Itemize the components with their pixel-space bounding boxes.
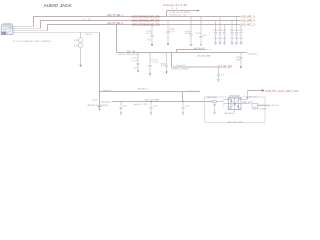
svg-text:C315: C315 xyxy=(185,106,190,108)
svg-text:C319: C319 xyxy=(195,33,201,35)
svg-text:50V: 50V xyxy=(134,67,139,69)
svg-text:33pF: 33pF xyxy=(236,59,242,61)
svg-text:MIC_IN: MIC_IN xyxy=(127,51,135,53)
svg-text:AUD_JACK_GND: AUD_JACK_GND xyxy=(228,121,244,124)
svg-text:MMBT3904: MMBT3904 xyxy=(207,97,217,99)
svg-text:NetQ31_2: NetQ31_2 xyxy=(103,89,113,92)
svg-text:AUD_HS_JACK_DET_3V3: AUD_HS_JACK_DET_3V3 xyxy=(265,90,299,93)
svg-text:AUD 1 2 1K DNI AUD_HPR_CON: AUD 1 2 1K DNI AUD_HPR_CON xyxy=(132,19,160,22)
svg-text:C313: C313 xyxy=(123,106,128,108)
svg-text:Q311: Q311 xyxy=(93,99,99,101)
svg-text:NetU31_4: NetU31_4 xyxy=(249,95,258,98)
svg-text:AUD_MIC_DET: AUD_MIC_DET xyxy=(218,66,233,69)
svg-text:47pF: 47pF xyxy=(132,60,139,62)
svg-text:4.7K: 4.7K xyxy=(161,66,167,68)
svg-text:AUD_MIC_X: AUD_MIC_X xyxy=(241,24,256,27)
svg-text:31-15-2103 HEADSET JACK 3.5MM: 31-15-2103 HEADSET JACK 3.5MM A35 xyxy=(13,40,52,43)
svg-text:HS_DET_L: HS_DET_L xyxy=(138,89,149,91)
svg-text:0.1u 1uF 10u: 0.1u 1uF 10u xyxy=(213,38,226,40)
svg-text:AUD_MIC_BIAS: AUD_MIC_BIAS xyxy=(145,99,160,102)
svg-text:100K: 100K xyxy=(185,33,191,35)
svg-text:AUD_JACK_IC: AUD_JACK_IC xyxy=(225,112,237,115)
svg-text:Charge_Px 3.3V: Charge_Px 3.3V xyxy=(163,3,187,7)
svg-text:C314: C314 xyxy=(153,106,158,108)
svg-text:MIC_IN: MIC_IN xyxy=(86,34,93,36)
svg-text:NetR31_2 1.0A: NetR31_2 1.0A xyxy=(170,14,187,17)
svg-text:NetC31_1 AUD_MIC_IN: NetC31_1 AUD_MIC_IN xyxy=(119,53,140,56)
svg-text:AUD 1 2 1K DNI AUD_HPL_CON: AUD 1 2 1K DNI AUD_HPL_CON xyxy=(132,15,160,18)
svg-text:1uF: 1uF xyxy=(202,35,207,37)
svg-text:3 4: 3 4 xyxy=(223,107,228,109)
svg-text:22 ohm 1%: 22 ohm 1% xyxy=(177,65,186,67)
svg-text:D311: D311 xyxy=(74,40,80,42)
svg-text:3.3: 3.3 xyxy=(172,8,178,10)
svg-text:10K 1%: 10K 1% xyxy=(271,105,279,107)
svg-text:2.2K: 2.2K xyxy=(152,62,159,64)
svg-text:16V: 16V xyxy=(147,40,152,42)
svg-text:0.1u: 0.1u xyxy=(169,31,174,33)
svg-text:AUD_HPR_X: AUD_HPR_X xyxy=(241,20,256,23)
svg-text:AUD_MIC_BIAS: AUD_MIC_BIAS xyxy=(198,54,212,57)
svg-text:SN74LVC1G3157: SN74LVC1G3157 xyxy=(229,96,240,98)
svg-text:AUD_HP_SEL_R: AUD_HP_SEL_R xyxy=(107,22,123,25)
svg-text:AUDIO JACK: AUDIO JACK xyxy=(44,3,73,8)
svg-text:NetR318_2 0402: NetR318_2 0402 xyxy=(252,107,266,110)
svg-text:10uF: 10uF xyxy=(146,33,152,35)
svg-text:AUD_HS_DET: AUD_HS_DET xyxy=(194,47,206,50)
svg-text:AUD_HP_SEL_L: AUD_HP_SEL_L xyxy=(107,14,124,17)
svg-text:0.1u 1uF 10u: 0.1u 1uF 10u xyxy=(230,38,243,40)
svg-text:AUD_MIC_P: AUD_MIC_P xyxy=(102,100,113,103)
svg-text:NetC313_1 2K2: NetC313_1 2K2 xyxy=(134,103,149,106)
svg-text:AUD 1 2 1K DNI AUD_MIC_CON: AUD 1 2 1K DNI AUD_MIC_CON xyxy=(132,23,160,26)
svg-text:C320 C321 C3: C320 C321 C3 xyxy=(213,30,226,32)
svg-text:22.1K: 22.1K xyxy=(83,19,92,21)
svg-text:AUD_HPL_X: AUD_HPL_X xyxy=(241,16,256,19)
svg-text:NetR314_2 R0402: NetR314_2 R0402 xyxy=(172,68,190,71)
svg-text:002 SOT23 NMOS: 002 SOT23 NMOS xyxy=(92,105,109,107)
svg-text:ESD: ESD xyxy=(74,45,80,47)
svg-text:NetC316_1: NetC316_1 xyxy=(248,52,259,55)
svg-text:C323 C324 C3: C323 C324 C3 xyxy=(230,30,243,32)
